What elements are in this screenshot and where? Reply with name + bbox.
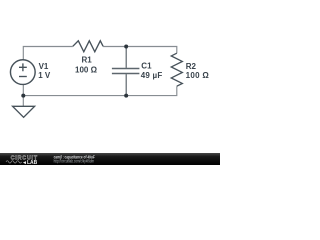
wire capacitor C1 top stub [125, 47, 127, 68]
resistor R2 [171, 53, 182, 86]
svg-text:100 Ω: 100 Ω [75, 65, 98, 74]
wire capacitor C1 bottom stub [125, 74, 127, 96]
wire ground stub [22, 96, 24, 107]
svg-text:◄LAB: ◄LAB [22, 160, 38, 165]
svg-text:1 V: 1 V [38, 71, 51, 80]
svg-text:49 µF: 49 µF [141, 71, 163, 80]
node junction dot at ground node [21, 94, 25, 98]
ground [13, 106, 35, 117]
capacitor C1 [112, 69, 139, 74]
wire from R1 right to R2 top [103, 47, 177, 54]
svg-text:http://circuitlab.com/c/ky4f9d: http://circuitlab.com/c/ky4f9dm [54, 158, 95, 163]
svg-text:V1: V1 [39, 62, 49, 71]
footer bar [0, 153, 220, 165]
svg-text:C1: C1 [141, 61, 152, 70]
wire from V1 top to R1 left [23, 47, 73, 61]
node junction dot at C1 bottom [124, 94, 128, 98]
svg-text:R2: R2 [186, 62, 197, 71]
wire V1 bottom stub [22, 84, 24, 95]
footer CircuitLab logo [6, 155, 38, 166]
svg-text:100 Ω: 100 Ω [186, 71, 210, 80]
voltage source V1 [10, 60, 35, 85]
wire from R2 bottom to ground node [23, 86, 177, 95]
resistor R1 [73, 41, 103, 52]
node junction dot at C1 top [124, 45, 128, 49]
svg-text:R1: R1 [81, 55, 92, 64]
